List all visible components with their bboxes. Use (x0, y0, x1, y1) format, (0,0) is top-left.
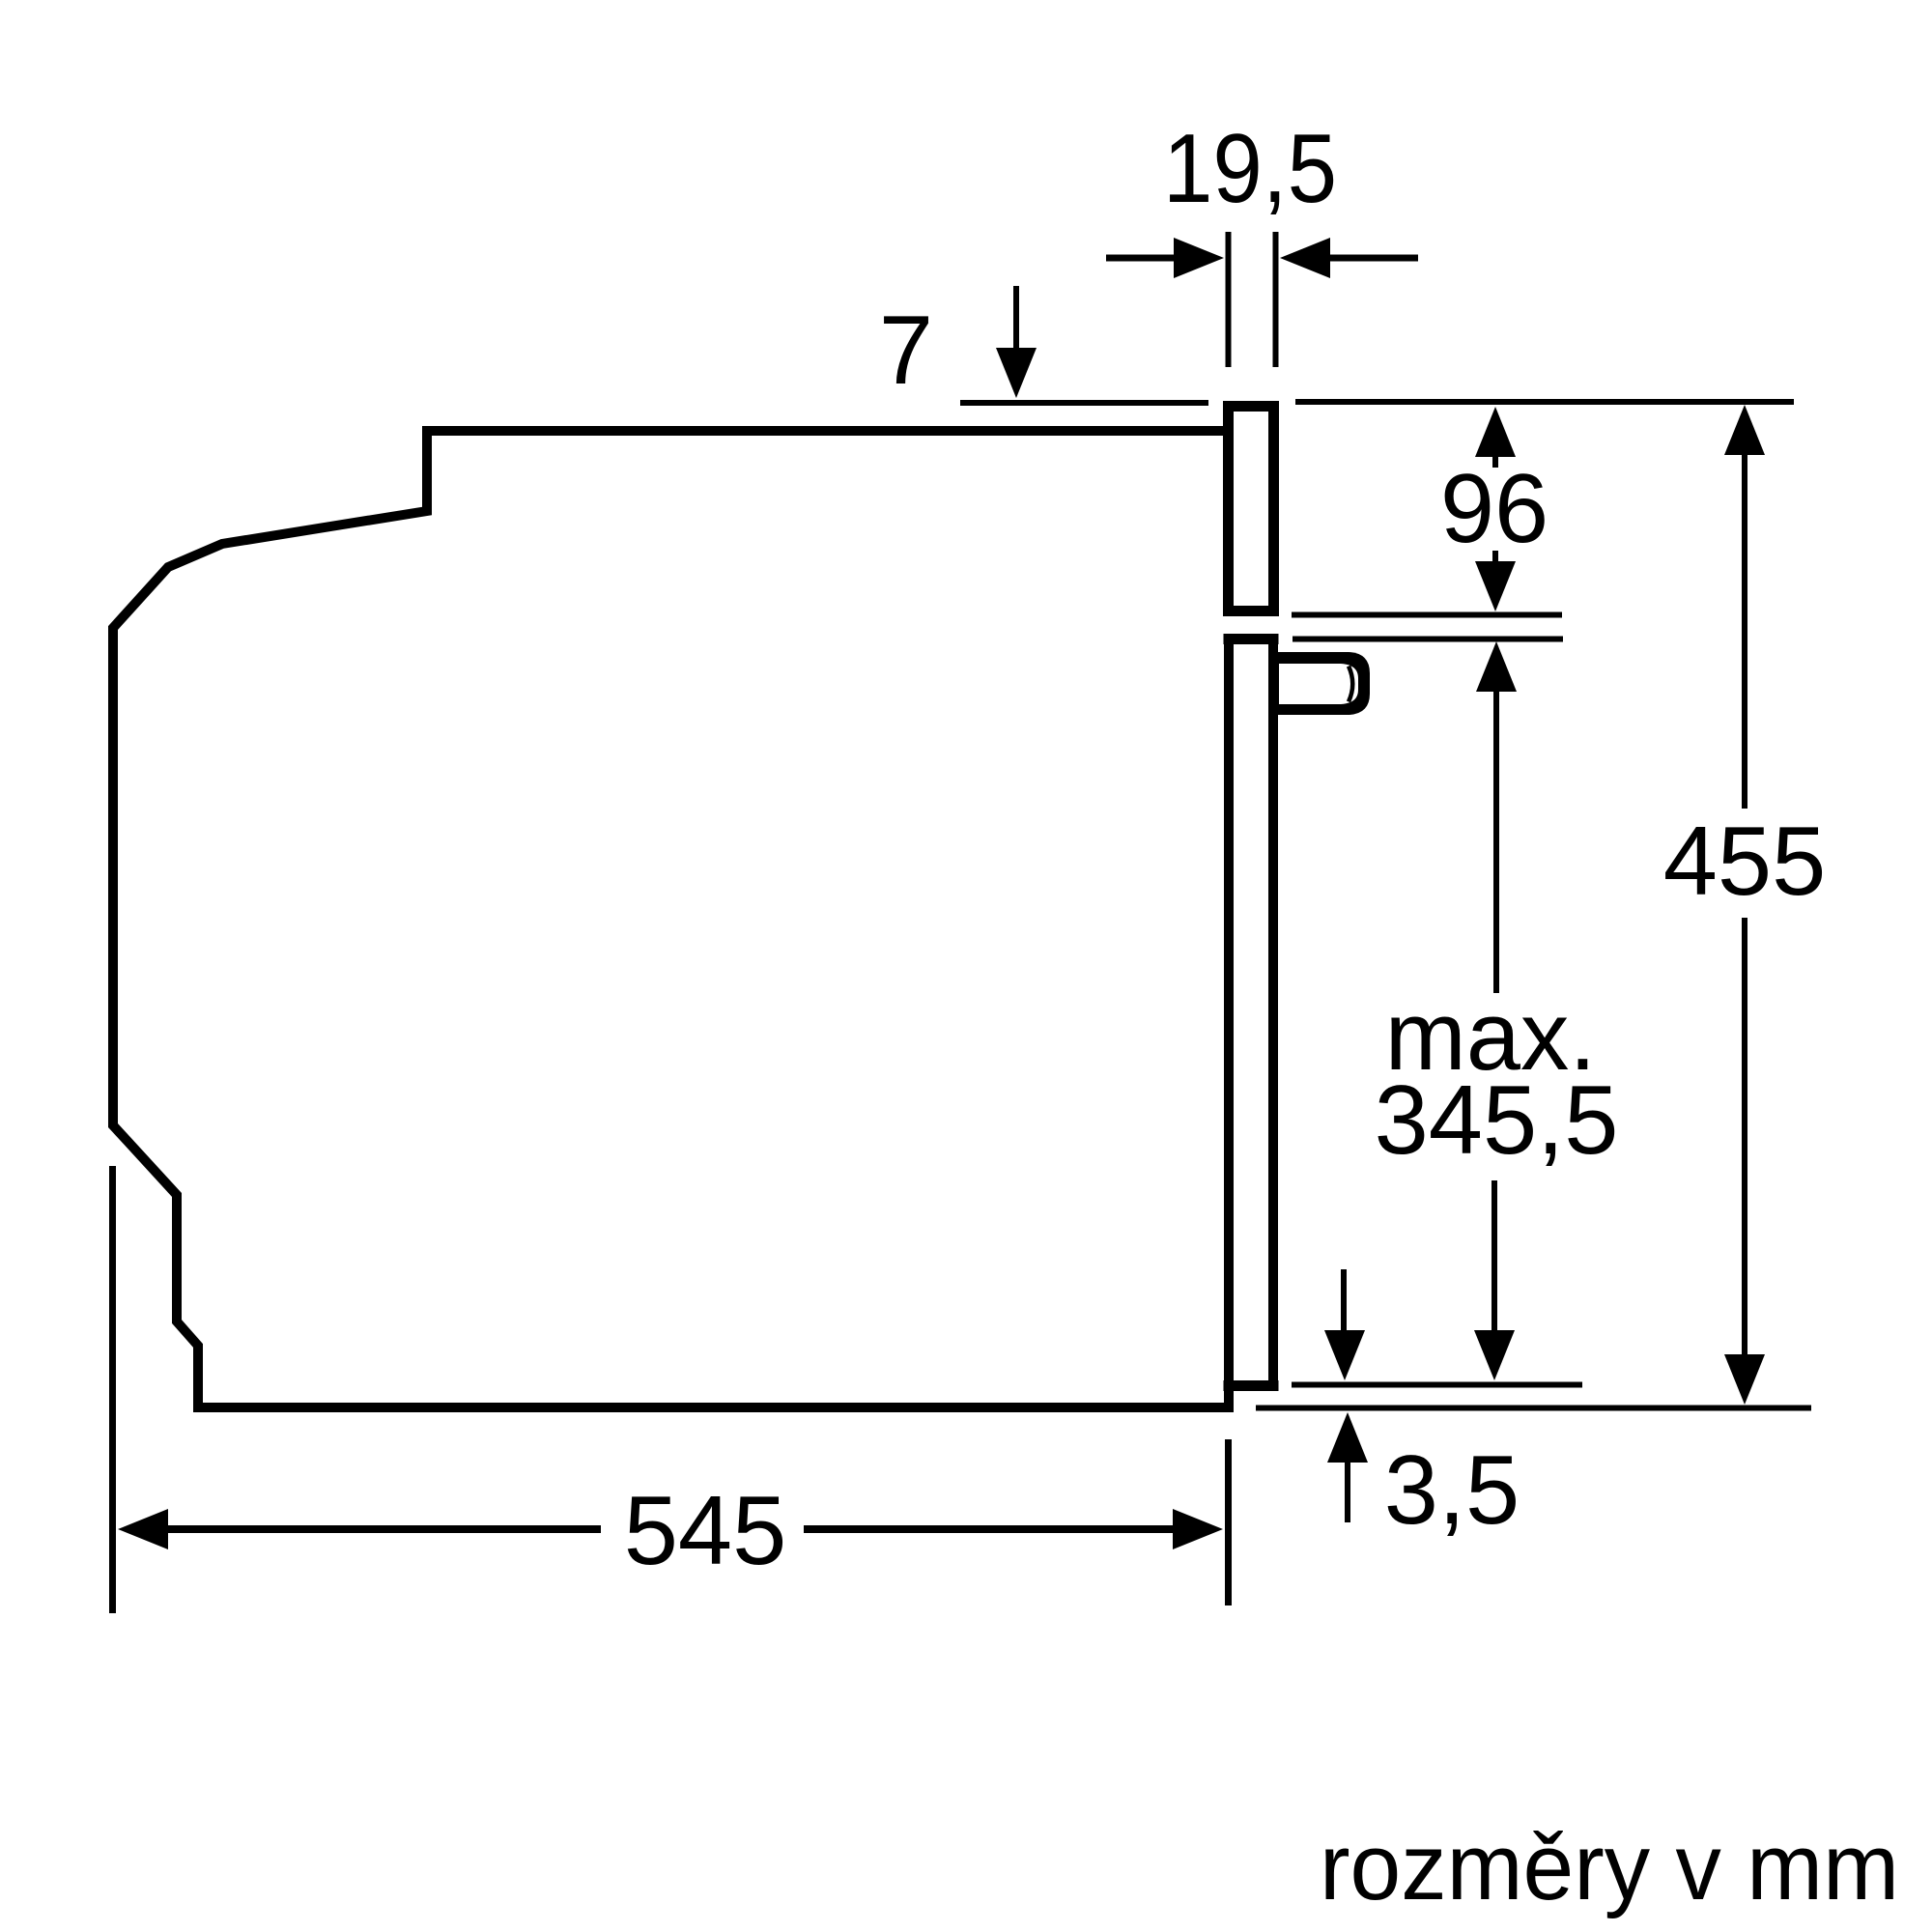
svg-text:7: 7 (879, 297, 933, 405)
svg-text:96: 96 (1440, 455, 1548, 563)
door bottom reference line (1292, 1382, 1582, 1388)
floor reference line (1256, 1406, 1811, 1411)
dimension: 19,5 (1106, 115, 1418, 367)
dimension: 545 (113, 1166, 1229, 1613)
oven body outline (113, 431, 1229, 1407)
door top edge (1224, 634, 1279, 644)
top reference line (right of panel) (1295, 399, 1794, 405)
svg-text:3,5: 3,5 (1384, 1436, 1520, 1545)
oven door front vertical (1224, 634, 1234, 1412)
handle inner arc detail (1349, 667, 1352, 702)
door bottom edge (1224, 1380, 1279, 1391)
svg-text:19,5: 19,5 (1163, 115, 1337, 223)
svg-text:455: 455 (1663, 808, 1827, 916)
dimension: 7 (879, 286, 1037, 405)
door top reference line (1293, 637, 1563, 642)
dimension: 3,5 (1324, 1269, 1520, 1545)
dimension: max. 345,5 (1375, 641, 1619, 1380)
svg-text:345,5: 345,5 (1375, 1066, 1619, 1175)
dimension: 96 (1292, 407, 1562, 615)
svg-text:rozměry v mm: rozměry v mm (1320, 1814, 1899, 1919)
control panel front strip (1229, 407, 1274, 611)
door back vertical (1268, 639, 1278, 1391)
door handle (1268, 652, 1370, 715)
top reference line (left of panel) (960, 400, 1208, 406)
svg-text:545: 545 (624, 1477, 787, 1585)
dimension: 455 (1663, 405, 1827, 1405)
